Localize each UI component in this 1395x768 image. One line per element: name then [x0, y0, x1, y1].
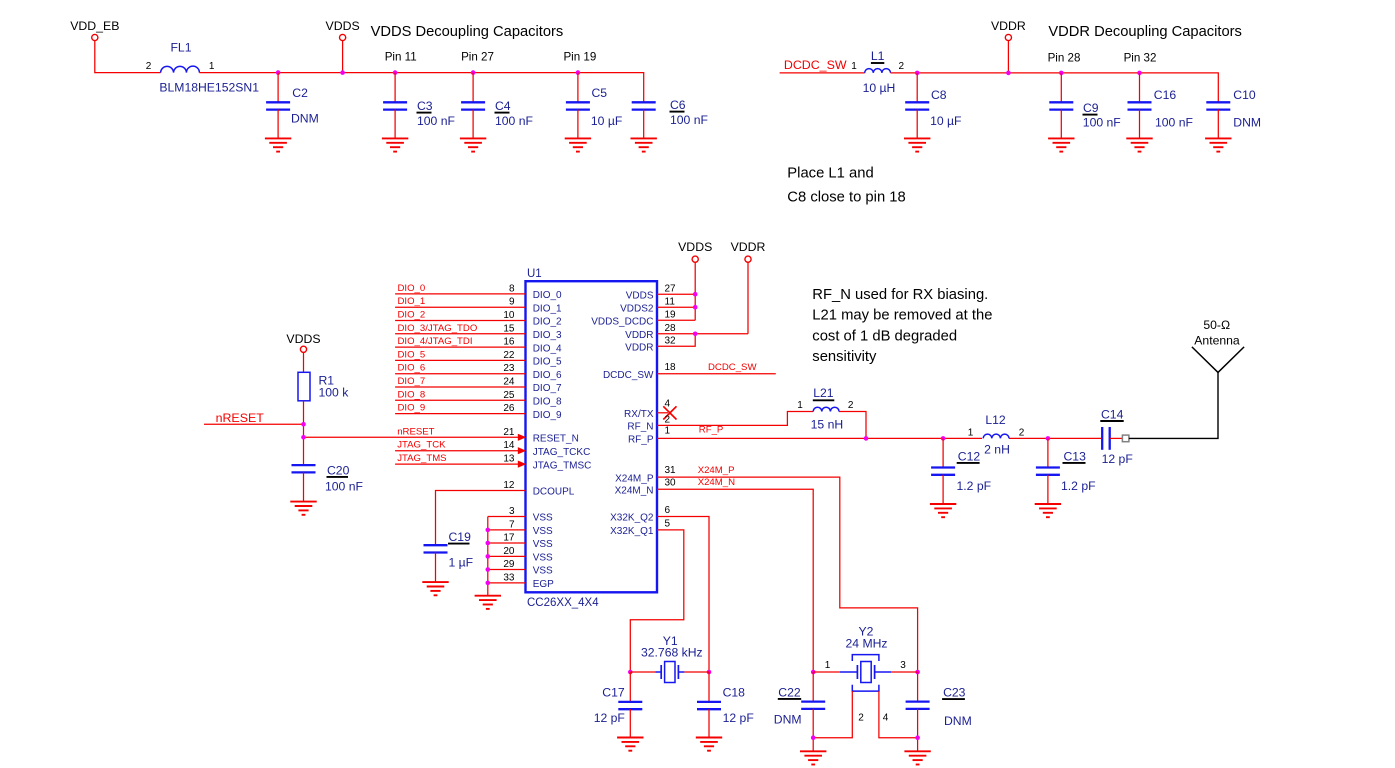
- ground: [265, 138, 291, 151]
- junction at C12: [941, 436, 946, 441]
- svg-text:1: 1: [968, 428, 974, 439]
- svg-text:VDDR: VDDR: [731, 240, 766, 254]
- capacitor C8: [905, 73, 961, 138]
- svg-text:C19: C19: [449, 530, 472, 544]
- ground: [904, 138, 930, 151]
- svg-text:DIO_9: DIO_9: [398, 403, 426, 414]
- wire RF_N pin 2: [627, 412, 813, 433]
- power terminal VDD_EB: [70, 19, 119, 41]
- svg-text:RF_N used for RX biasing.: RF_N used for RX biasing.: [812, 287, 988, 303]
- ground: [460, 138, 486, 151]
- svg-text:DIO_8: DIO_8: [533, 397, 562, 408]
- junction VDDS: [340, 70, 345, 75]
- wire RF_P pin 1: [628, 425, 1102, 446]
- ground: [475, 596, 501, 609]
- svg-text:RX/TX: RX/TX: [624, 409, 654, 420]
- svg-text:2: 2: [1019, 428, 1025, 439]
- svg-text:3: 3: [900, 660, 906, 671]
- svg-text:X24M_N: X24M_N: [698, 477, 735, 488]
- wire net DIO_8 pin 25: [395, 389, 562, 407]
- svg-text:33: 33: [503, 572, 515, 583]
- svg-text:cost of 1 dB degraded: cost of 1 dB degraded: [812, 328, 957, 344]
- capacitor C20: [292, 463, 363, 501]
- svg-text:JTAG_TMSC: JTAG_TMSC: [533, 460, 592, 471]
- junction at C4: [471, 70, 476, 75]
- wire X24M_N pin 30: [615, 477, 814, 672]
- ground: [1048, 138, 1074, 151]
- svg-text:2: 2: [146, 61, 152, 72]
- svg-text:5: 5: [665, 519, 671, 530]
- svg-text:DIO_5: DIO_5: [533, 357, 562, 368]
- svg-text:DCDC_SW: DCDC_SW: [603, 370, 654, 381]
- svg-text:100 nF: 100 nF: [495, 114, 533, 128]
- svg-text:L21 may be removed at the: L21 may be removed at the: [812, 308, 992, 324]
- svg-text:DNM: DNM: [944, 714, 972, 728]
- svg-text:12 pF: 12 pF: [594, 711, 625, 725]
- power terminal VDDR at U1: [731, 240, 766, 334]
- capacitor C6: [632, 98, 708, 138]
- svg-text:DIO_6: DIO_6: [398, 363, 426, 374]
- crystal Y1: [630, 634, 709, 683]
- wire: [303, 436, 305, 438]
- svg-text:100 nF: 100 nF: [1155, 116, 1193, 130]
- junction at C16: [1137, 71, 1142, 76]
- svg-text:BLM18HE152SN1: BLM18HE152SN1: [159, 81, 259, 95]
- svg-text:Place L1 and: Place L1 and: [787, 166, 873, 182]
- svg-text:CC26XX_4X4: CC26XX_4X4: [527, 597, 599, 609]
- wire net DIO_1 pin 9: [395, 296, 562, 314]
- wire VDDR rail: [891, 73, 1219, 102]
- wire VDDR pin 32: [625, 334, 695, 354]
- wire nRESET: [204, 423, 304, 425]
- svg-text:14: 14: [503, 440, 515, 451]
- svg-text:C14: C14: [1101, 408, 1124, 422]
- junction C23 gnd: [915, 735, 920, 740]
- wire R1 to C20: [303, 401, 305, 465]
- svg-text:DIO_1: DIO_1: [533, 303, 562, 314]
- svg-text:22: 22: [503, 350, 515, 361]
- inductor L12: [968, 413, 1025, 456]
- svg-text:VDDR: VDDR: [991, 19, 1026, 33]
- svg-text:DIO_4/JTAG_TDI: DIO_4/JTAG_TDI: [398, 336, 473, 347]
- svg-text:RF_N: RF_N: [627, 422, 653, 433]
- svg-text:27: 27: [665, 284, 677, 295]
- svg-text:1: 1: [825, 660, 831, 671]
- wire DCDC_SW pin 18: [603, 362, 776, 381]
- wire VDDS2 pin 11: [620, 297, 695, 315]
- svg-text:24 MHz: 24 MHz: [846, 637, 888, 651]
- crystal Y2: [813, 625, 917, 724]
- svg-text:C23: C23: [943, 686, 966, 700]
- svg-text:X32K_Q2: X32K_Q2: [610, 513, 654, 524]
- ground: [800, 751, 826, 764]
- capacitor C13: [1036, 438, 1096, 504]
- wire net DIO_0 pin 8: [395, 283, 562, 301]
- svg-text:Pin 27: Pin 27: [461, 51, 494, 64]
- svg-text:RF_P: RF_P: [699, 425, 724, 436]
- wire VDDS pin 27: [626, 284, 695, 302]
- junction VSS bus: [486, 554, 491, 559]
- wire net DIO_9 pin 26: [395, 403, 562, 421]
- svg-text:10: 10: [503, 310, 515, 321]
- svg-text:2: 2: [858, 713, 864, 724]
- svg-text:DIO_9: DIO_9: [533, 410, 562, 421]
- ground: [1205, 138, 1231, 151]
- svg-text:15: 15: [503, 323, 515, 334]
- svg-text:DIO_8: DIO_8: [398, 389, 426, 400]
- svg-text:X32K_Q1: X32K_Q1: [610, 526, 654, 537]
- wire net DIO_5 pin 22: [395, 349, 562, 367]
- svg-text:JTAG_TCKC: JTAG_TCKC: [533, 447, 591, 458]
- capacitor C5: [566, 73, 622, 139]
- svg-text:DIO_3: DIO_3: [533, 330, 562, 341]
- junction pin11: [693, 305, 698, 310]
- wire VSS pin 29: [488, 559, 553, 577]
- svg-text:Pin 19: Pin 19: [563, 51, 596, 64]
- svg-text:VDDR: VDDR: [625, 330, 653, 341]
- power terminal VDDS at R1: [286, 332, 320, 372]
- svg-text:100 nF: 100 nF: [417, 114, 455, 128]
- wire X24M_P pin 31: [615, 465, 917, 672]
- svg-text:DNM: DNM: [774, 712, 802, 726]
- svg-text:9: 9: [509, 297, 515, 308]
- svg-text:VDDS: VDDS: [286, 332, 320, 346]
- junction at C9: [1059, 71, 1064, 76]
- wire EGP pin 33: [488, 572, 554, 590]
- svg-text:EGP: EGP: [533, 579, 554, 590]
- svg-text:1 µF: 1 µF: [449, 556, 474, 570]
- svg-text:100 k: 100 k: [319, 386, 350, 400]
- wire VSS bus: [487, 517, 489, 596]
- capacitor C2: [266, 73, 319, 139]
- svg-text:10 µF: 10 µF: [591, 114, 622, 128]
- svg-text:VDDS_DCDC: VDDS_DCDC: [591, 317, 653, 328]
- svg-text:50-Ω: 50-Ω: [1203, 318, 1230, 332]
- svg-text:C3: C3: [417, 99, 433, 113]
- svg-text:L12: L12: [985, 413, 1006, 427]
- svg-text:U1: U1: [527, 268, 542, 280]
- svg-text:100 nF: 100 nF: [670, 113, 708, 127]
- svg-text:RF_P: RF_P: [628, 435, 654, 446]
- svg-text:30: 30: [665, 477, 677, 488]
- svg-text:Pin 11: Pin 11: [385, 51, 417, 64]
- svg-text:sensitivity: sensitivity: [812, 349, 877, 365]
- svg-text:C8 close to pin 18: C8 close to pin 18: [787, 189, 905, 205]
- junction at C3: [393, 70, 398, 75]
- svg-text:VSS: VSS: [533, 566, 553, 577]
- ground: [1126, 138, 1152, 151]
- ground: [1035, 504, 1061, 517]
- wire VSS pin 17: [488, 533, 553, 551]
- svg-text:29: 29: [503, 559, 515, 570]
- svg-text:7: 7: [509, 519, 515, 530]
- wire net DIO_2 pin 10: [395, 310, 562, 328]
- svg-text:11: 11: [665, 297, 676, 308]
- capacitor C22: [774, 672, 825, 751]
- svg-text:DIO_5: DIO_5: [398, 349, 426, 360]
- svg-text:L1: L1: [871, 49, 885, 63]
- antenna: [1192, 318, 1244, 372]
- junction at C5: [576, 70, 581, 75]
- wire VDDS rail: [199, 73, 643, 103]
- wire to antenna: [1129, 372, 1218, 438]
- svg-text:RESET_N: RESET_N: [533, 434, 579, 445]
- svg-text:23: 23: [503, 363, 515, 374]
- svg-text:DIO_7: DIO_7: [533, 383, 562, 394]
- svg-text:VDDS: VDDS: [626, 290, 654, 301]
- svg-text:1: 1: [209, 61, 215, 72]
- svg-text:Pin 28: Pin 28: [1048, 52, 1081, 65]
- svg-text:1: 1: [851, 61, 857, 72]
- svg-text:VDDS: VDDS: [678, 240, 712, 254]
- inductor L21: [797, 386, 854, 432]
- wire X32K_Q2 pin 6: [610, 505, 709, 672]
- svg-text:VDDS Decoupling Capacitors: VDDS Decoupling Capacitors: [371, 24, 564, 40]
- svg-text:C17: C17: [602, 686, 625, 700]
- svg-text:C6: C6: [670, 98, 686, 112]
- svg-text:C9: C9: [1083, 101, 1099, 115]
- svg-text:VSS: VSS: [533, 526, 553, 537]
- wire VSS pin 7: [488, 519, 553, 537]
- junction at C13: [1046, 436, 1051, 441]
- wire L21 to RF_P: [839, 412, 866, 439]
- svg-text:21: 21: [503, 427, 515, 438]
- power terminal VDDS at U1: [678, 240, 712, 320]
- capacitor C10: [1206, 88, 1261, 138]
- svg-text:DIO_6: DIO_6: [533, 370, 562, 381]
- ground: [696, 738, 722, 751]
- svg-text:24: 24: [503, 377, 515, 388]
- svg-text:VSS: VSS: [533, 513, 553, 524]
- ground: [290, 502, 316, 515]
- svg-text:VDD_EB: VDD_EB: [70, 19, 119, 33]
- ground: [904, 751, 930, 764]
- svg-text:1: 1: [665, 426, 671, 437]
- svg-text:DIO_4: DIO_4: [533, 343, 562, 354]
- svg-text:18: 18: [665, 362, 677, 373]
- wire C14 to port: [1110, 437, 1123, 439]
- junction VSS bus: [486, 581, 491, 586]
- wire VDDS_DCDC pin 19: [591, 310, 695, 328]
- capacitor C9: [1049, 73, 1120, 138]
- svg-text:DCOUPL: DCOUPL: [533, 487, 575, 498]
- inductor L1: [851, 49, 904, 95]
- svg-text:10 µF: 10 µF: [930, 114, 961, 128]
- junction L21/RF_P: [864, 436, 869, 441]
- svg-text:nRESET: nRESET: [397, 426, 434, 437]
- junction VSS bus: [486, 567, 491, 572]
- wire net JTAG_TCK pin 14 JTAG_TCKC: [395, 440, 590, 458]
- svg-text:VDDS: VDDS: [326, 19, 360, 33]
- svg-text:12 pF: 12 pF: [1102, 452, 1133, 466]
- wire VDDR pin 28: [625, 323, 748, 341]
- svg-text:DIO_7: DIO_7: [398, 376, 426, 387]
- svg-text:C5: C5: [592, 86, 608, 100]
- ground: [382, 138, 408, 151]
- capacitor C3: [383, 73, 455, 139]
- svg-text:6: 6: [665, 505, 671, 516]
- svg-text:X24M_P: X24M_P: [615, 473, 654, 484]
- wire DCOUPL pin 12: [436, 480, 575, 545]
- wire net nRESET pin 21 RESET_N: [304, 426, 579, 444]
- svg-text:C4: C4: [495, 99, 511, 113]
- svg-text:2: 2: [848, 400, 854, 411]
- wire net DIO_4 pin 16: [395, 336, 562, 354]
- svg-text:1.2 pF: 1.2 pF: [957, 479, 992, 493]
- svg-text:C13: C13: [1064, 450, 1087, 464]
- svg-text:2: 2: [899, 61, 905, 72]
- ground: [930, 504, 956, 517]
- svg-text:25: 25: [503, 390, 515, 401]
- svg-text:VDDR: VDDR: [625, 343, 653, 354]
- svg-text:20: 20: [503, 546, 515, 557]
- svg-text:32: 32: [665, 336, 677, 347]
- power terminal VDDR: [991, 19, 1026, 73]
- resistor R1: [298, 372, 349, 401]
- junction Y1 left: [628, 670, 633, 675]
- junction Y2 left: [811, 670, 816, 675]
- wire net DIO_3 pin 15: [395, 323, 562, 341]
- svg-text:31: 31: [665, 465, 677, 476]
- svg-text:2 nH: 2 nH: [984, 442, 1010, 456]
- svg-text:VDDS2: VDDS2: [620, 303, 654, 314]
- junction C22 gnd: [811, 735, 816, 740]
- wire RX/TX pin 4 no-connect: [624, 398, 670, 420]
- junction VSS bus: [486, 541, 491, 546]
- ferrite bead FL1: [146, 41, 259, 95]
- ground: [565, 138, 591, 151]
- svg-text:19: 19: [665, 310, 677, 321]
- svg-text:1: 1: [797, 400, 803, 411]
- svg-text:13: 13: [503, 454, 515, 465]
- svg-text:X24M_N: X24M_N: [615, 486, 654, 497]
- wire net JTAG_TMS pin 13 JTAG_TMSC: [395, 453, 591, 471]
- capacitor C16: [1128, 73, 1193, 138]
- wire net DIO_6 pin 23: [395, 363, 562, 381]
- svg-text:DCDC_SW: DCDC_SW: [708, 362, 757, 373]
- svg-text:10 µH: 10 µH: [863, 81, 896, 95]
- svg-text:15 nH: 15 nH: [811, 418, 844, 432]
- svg-text:L21: L21: [813, 386, 834, 400]
- wire net DIO_7 pin 24: [395, 376, 562, 394]
- svg-text:DIO_1: DIO_1: [398, 296, 426, 307]
- svg-text:Pin 32: Pin 32: [1124, 52, 1157, 65]
- svg-text:DIO_2: DIO_2: [533, 317, 562, 328]
- capacitor C17: [594, 672, 643, 738]
- junction Y2 right: [915, 670, 920, 675]
- junction VDDR: [1006, 71, 1011, 76]
- svg-text:C12: C12: [958, 450, 981, 464]
- no-connect X: [663, 406, 676, 419]
- svg-text:C10: C10: [1233, 88, 1256, 102]
- svg-text:DIO_2: DIO_2: [398, 310, 426, 321]
- svg-text:VDDR Decoupling Capacitors: VDDR Decoupling Capacitors: [1048, 24, 1241, 40]
- port symbol: [1122, 435, 1129, 442]
- svg-text:C20: C20: [327, 463, 350, 477]
- capacitor C23: [906, 672, 972, 751]
- svg-text:FL1: FL1: [170, 41, 191, 55]
- capacitor C19: [424, 530, 474, 582]
- svg-text:VSS: VSS: [533, 539, 553, 550]
- svg-text:28: 28: [665, 323, 677, 334]
- svg-text:2: 2: [665, 415, 671, 426]
- capacitor C14: [1100, 408, 1132, 467]
- note RF_N biasing: [812, 287, 992, 365]
- wire VSS pin 20: [488, 546, 553, 564]
- svg-text:JTAG_TMS: JTAG_TMS: [397, 453, 446, 464]
- capacitor C18: [697, 672, 754, 738]
- svg-text:C8: C8: [931, 88, 947, 102]
- junction RESET branch: [301, 435, 306, 440]
- svg-text:8: 8: [509, 283, 515, 294]
- op-amp U1 body: [526, 281, 658, 592]
- junction pin28: [693, 332, 698, 337]
- svg-text:3: 3: [509, 506, 515, 517]
- svg-text:DIO_0: DIO_0: [533, 290, 562, 301]
- ground: [617, 738, 643, 751]
- svg-text:16: 16: [503, 337, 515, 348]
- svg-text:Antenna: Antenna: [1194, 334, 1240, 348]
- wire DCDC_SW to L1: [780, 72, 865, 74]
- wire VSS pin 3: [488, 506, 553, 524]
- junction nRESET: [301, 422, 306, 427]
- svg-text:DIO_3/JTAG_TDO: DIO_3/JTAG_TDO: [398, 323, 478, 334]
- wire X32K_Q1 pin 5: [610, 519, 684, 673]
- svg-text:DIO_0: DIO_0: [398, 283, 426, 294]
- svg-text:C16: C16: [1154, 88, 1177, 102]
- svg-text:26: 26: [503, 403, 515, 414]
- svg-text:JTAG_TCK: JTAG_TCK: [397, 440, 446, 451]
- svg-text:X24M_P: X24M_P: [698, 465, 735, 476]
- junction pin27: [693, 292, 698, 297]
- svg-text:C18: C18: [723, 686, 746, 700]
- wire VDD_EB to FL1: [95, 41, 161, 73]
- ground: [422, 582, 448, 595]
- svg-text:12: 12: [503, 480, 515, 491]
- svg-text:100 nF: 100 nF: [1083, 116, 1121, 130]
- svg-text:DNM: DNM: [1233, 116, 1261, 130]
- svg-text:1.2 pF: 1.2 pF: [1061, 479, 1096, 493]
- svg-text:C2: C2: [292, 86, 308, 100]
- svg-text:C22: C22: [778, 685, 801, 699]
- svg-text:4: 4: [883, 713, 889, 724]
- svg-text:32.768 kHz: 32.768 kHz: [641, 646, 703, 660]
- junction at C8: [915, 71, 920, 76]
- svg-text:DNM: DNM: [291, 112, 319, 126]
- note place L1 C8: [787, 166, 905, 206]
- ground: [631, 138, 657, 151]
- capacitor C4: [461, 73, 533, 139]
- junction at C2: [276, 70, 281, 75]
- svg-text:VSS: VSS: [533, 553, 553, 564]
- power terminal VDDS: [326, 19, 360, 73]
- svg-text:nRESET: nRESET: [216, 411, 265, 425]
- wire Y2 pin2 to C22 gnd: [813, 691, 852, 738]
- junction Y1 right: [707, 670, 712, 675]
- junction VSS bus: [486, 528, 491, 533]
- svg-text:12 pF: 12 pF: [723, 711, 754, 725]
- svg-text:DCDC_SW: DCDC_SW: [784, 58, 847, 72]
- svg-text:100 nF: 100 nF: [325, 479, 363, 493]
- svg-text:17: 17: [503, 533, 515, 544]
- capacitor C12: [931, 438, 991, 504]
- wire Y2 pin4 to C23 gnd: [879, 691, 918, 738]
